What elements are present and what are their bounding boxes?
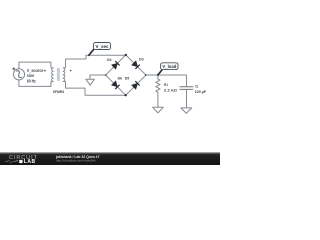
junction dot right vertex xyxy=(145,74,147,76)
junction dot at R1 top xyxy=(157,74,159,76)
secondary winding xyxy=(63,68,66,82)
transformer XFMR4 xyxy=(44,68,71,82)
footer bar xyxy=(0,152,220,165)
diode D5 xyxy=(132,81,140,89)
CircuitLab logo xyxy=(5,155,38,165)
ground under R1 xyxy=(153,107,164,113)
capacitor C1 xyxy=(180,87,194,90)
ground under C1 xyxy=(181,108,192,114)
svg-text:D3: D3 xyxy=(139,58,144,62)
core xyxy=(57,68,60,81)
polarity dot secondary xyxy=(70,70,72,72)
svg-text:2.2 kΩ: 2.2 kΩ xyxy=(164,87,178,92)
svg-text:V_sec: V_sec xyxy=(96,44,110,49)
voltage source V_source xyxy=(13,69,24,80)
svg-text:C1: C1 xyxy=(195,84,199,89)
wire right vertex to load and C1 xyxy=(146,75,187,86)
polarity dot primary xyxy=(44,70,46,72)
svg-text:http://circuitlab.com/c4ww3j4t: http://circuitlab.com/c4ww3j4t xyxy=(56,158,96,162)
svg-text:100 µF: 100 µF xyxy=(195,89,207,94)
ground at bridge left xyxy=(86,79,95,85)
svg-text:LAB: LAB xyxy=(24,159,36,165)
wire secondary bottom to bridge bottom vertex xyxy=(66,81,126,95)
diode D3 xyxy=(132,61,140,69)
resistor R1 xyxy=(156,75,160,107)
diode D4 xyxy=(111,61,119,69)
label C1 value xyxy=(195,84,207,94)
svg-text:V_load: V_load xyxy=(162,64,176,69)
wire secondary top to bridge top vertex xyxy=(66,55,126,68)
svg-text:XFMR4: XFMR4 xyxy=(53,90,65,94)
label R1 value xyxy=(164,82,178,92)
junction dot bottom vertex xyxy=(125,94,127,96)
bridge diamond wires xyxy=(106,55,146,95)
junction dot top vertex xyxy=(125,54,127,56)
wire left vertex to ground xyxy=(90,75,106,79)
plus polarity of V_source xyxy=(12,67,15,70)
junction dot left vertex xyxy=(105,74,107,76)
wire primary top: source top to transformer primary xyxy=(19,62,51,69)
flag V_load xyxy=(158,63,178,75)
diode D6 xyxy=(111,81,119,89)
svg-text:D5: D5 xyxy=(125,76,130,80)
wire primary bottom: source bottom to transformer primary xyxy=(19,80,51,87)
primary winding xyxy=(51,68,54,82)
label V_source sine 60 Hz xyxy=(27,68,44,83)
svg-text:60 Hz: 60 Hz xyxy=(27,78,36,83)
svg-text:D6: D6 xyxy=(118,76,123,80)
flag V_sec xyxy=(89,43,111,56)
